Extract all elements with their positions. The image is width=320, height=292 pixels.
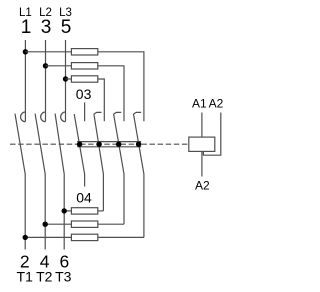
mechanical link bar bottom line xyxy=(77,146,141,148)
svg-text:A2: A2 xyxy=(209,97,224,111)
aux contact C moving contact xyxy=(134,114,144,237)
node junction pole3 tap xyxy=(63,76,68,81)
svg-text:03: 03 xyxy=(76,86,92,102)
wire aux C to R6 xyxy=(98,236,144,238)
coil K1 xyxy=(189,137,215,151)
svg-text:A1: A1 xyxy=(192,97,207,111)
resistor R2 top xyxy=(71,63,97,69)
svg-text:A2: A2 xyxy=(195,178,210,192)
pole contact 1-2 fixed tip arc xyxy=(21,112,26,122)
svg-text:5: 5 xyxy=(61,17,72,38)
aux contact A hook xyxy=(94,112,102,114)
wire aux A to R4 xyxy=(98,210,104,212)
aux contact B moving contact xyxy=(114,114,124,224)
wire R3 to aux2 top xyxy=(98,79,105,121)
wire terminal 5 down xyxy=(65,40,67,122)
node junction pole2 bottom xyxy=(43,222,48,227)
wire R1 to aux4 top xyxy=(98,52,144,122)
node junction pole2 tap xyxy=(43,63,48,68)
svg-text:T3: T3 xyxy=(55,269,72,285)
wire tap L1 to R1 xyxy=(25,51,71,53)
svg-text:T1: T1 xyxy=(17,269,34,285)
mechanical link dashed line right xyxy=(141,143,188,145)
svg-text:04: 04 xyxy=(76,189,92,205)
pole contact 5-6 fixed tip arc xyxy=(61,112,66,122)
node bar dot 3 xyxy=(116,142,121,147)
mechanical link dashed line middle xyxy=(80,143,139,145)
mechanical link bar top line xyxy=(77,141,141,143)
svg-text:1: 1 xyxy=(21,17,32,38)
pole contact 5-6 moving contact xyxy=(55,114,64,250)
wire aux B to R5 xyxy=(98,223,124,225)
wire terminal 1 down xyxy=(24,40,26,122)
resistor R4 bottom xyxy=(71,208,97,214)
node bar dot 4 xyxy=(136,142,141,147)
pole contact 3-4 fixed tip arc xyxy=(41,112,46,122)
aux contact A moving contact xyxy=(94,114,104,211)
wire A1 down to coil xyxy=(201,113,203,138)
pole contact 1-2 moving contact xyxy=(15,114,25,250)
aux contact 03-04 moving contact xyxy=(74,114,84,187)
mechanical link dashed line left xyxy=(10,143,77,145)
aux contact C hook xyxy=(134,112,142,114)
wire R6 to pole1 xyxy=(25,236,71,238)
svg-text:T2: T2 xyxy=(36,269,53,285)
wire coil to A2 bottom xyxy=(201,151,203,176)
wire R5 to pole2 xyxy=(45,223,71,225)
wire A2 top down xyxy=(203,113,220,156)
resistor R5 bottom xyxy=(71,221,97,227)
resistor R1 top xyxy=(71,49,97,55)
resistor R3 top xyxy=(71,76,97,82)
node bar dot 1 xyxy=(77,142,82,147)
node junction pole1 tap xyxy=(23,49,28,54)
node bar dot 2 xyxy=(96,142,101,147)
resistor R6 bottom xyxy=(71,234,97,240)
wire R2 to aux3 top xyxy=(98,66,124,122)
svg-text:3: 3 xyxy=(41,17,52,38)
wire tap L3 to R3 xyxy=(66,78,72,80)
wire terminal 03 stub xyxy=(84,102,86,121)
aux contact B hook xyxy=(114,112,122,114)
node junction pole3 bottom xyxy=(61,208,66,213)
wire terminal 3 down xyxy=(45,40,47,122)
wire tap L2 to R2 xyxy=(46,65,72,67)
wire R4 to pole3 xyxy=(64,210,71,212)
pole contact 3-4 moving contact xyxy=(35,114,45,250)
node junction pole1 bottom xyxy=(23,235,28,240)
